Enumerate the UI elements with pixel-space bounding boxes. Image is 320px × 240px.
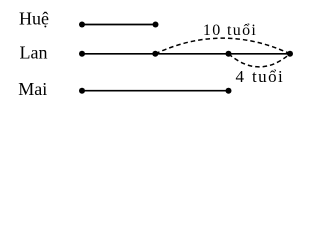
endpoint dot Mai left xyxy=(79,88,85,94)
svg-text:Mai: Mai xyxy=(18,79,47,99)
svg-text:4 tuổi: 4 tuổi xyxy=(236,67,285,86)
svg-text:Lan: Lan xyxy=(20,43,48,63)
endpoint dot Huệ right xyxy=(153,22,159,28)
endpoint dot Lan right xyxy=(287,51,293,57)
dashed brace arc 10 tuổi xyxy=(155,38,290,54)
svg-text:Huệ: Huệ xyxy=(19,8,49,28)
endpoint dot Lan left xyxy=(79,51,85,57)
tick dot Lan at Mai length xyxy=(226,51,232,57)
segment line Lan xyxy=(82,53,290,55)
svg-text:10 tuổi: 10 tuổi xyxy=(203,22,257,39)
endpoint dot Mai right xyxy=(226,88,232,94)
dashed brace arc 4 tuổi xyxy=(229,54,291,67)
segment line Huệ xyxy=(82,24,156,26)
endpoint dot Huệ left xyxy=(79,22,85,28)
segment line Mai xyxy=(82,90,229,92)
tick dot Lan at Huệ length xyxy=(152,51,158,57)
